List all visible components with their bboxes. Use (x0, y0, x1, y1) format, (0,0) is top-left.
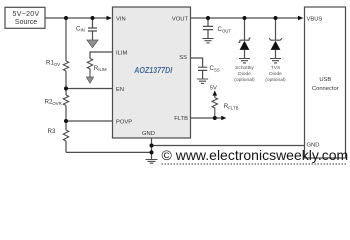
node GND right rail (150, 144, 154, 148)
svg-text:Schottky: Schottky (235, 65, 254, 71)
svg-text:© www.electronicsweekly.com: © www.electronicsweekly.com (162, 147, 349, 163)
resistor R3 zigzag (63, 130, 68, 141)
wire VOUT to VBUS (191, 17, 299, 19)
node EN (64, 87, 68, 91)
ground bottom center (146, 160, 158, 164)
node COUT (206, 16, 210, 20)
svg-text:Diode: Diode (269, 71, 282, 77)
svg-text:EN: EN (116, 87, 124, 93)
capacitor COUT (203, 18, 213, 38)
svg-text:VOUT: VOUT (172, 16, 189, 22)
arrowhead into VIN (107, 16, 112, 21)
svg-text:5V~20V: 5V~20V (13, 11, 40, 18)
svg-text:(optional): (optional) (265, 77, 286, 83)
svg-text:USB: USB (319, 77, 331, 83)
svg-text:AOZ1377DI: AOZ1377DI (133, 66, 173, 75)
resistor RILIM zigzag (87, 59, 92, 78)
node FLTB (213, 116, 217, 120)
watermark underline (162, 163, 347, 165)
arrowhead into VBUS (298, 16, 303, 21)
ground triangle RILIM (86, 77, 93, 83)
svg-text:Source: Source (15, 19, 37, 26)
svg-text:POVP: POVP (116, 119, 132, 125)
wire 5V supply (214, 95, 216, 98)
svg-text:(optional): (optional) (234, 77, 255, 83)
node CIN (91, 16, 95, 20)
svg-text:R3: R3 (48, 128, 56, 135)
wire FLTB (191, 117, 222, 119)
resistor RFLTB zigzag (212, 98, 217, 119)
svg-text:TVS: TVS (271, 65, 281, 71)
wire schottky diode (244, 18, 246, 58)
source box (5, 7, 45, 28)
TVS cathode bar (269, 38, 282, 40)
wire EN (66, 88, 113, 90)
capacitor CSS (198, 67, 207, 79)
wire ILIM (90, 52, 113, 59)
arrowhead 5V supply up (213, 90, 218, 95)
node source/R1 (64, 16, 68, 20)
svg-text:VBUS: VBUS (307, 17, 323, 23)
wire TVS diode (275, 18, 277, 58)
node TVS (274, 16, 278, 20)
arrowhead FLTB output (221, 116, 226, 120)
node schottky (243, 16, 247, 20)
ground schottky (239, 59, 250, 63)
ground triangle CIN (87, 40, 98, 48)
wire SS to CSS (191, 58, 203, 67)
svg-text:ILIM: ILIM (116, 51, 127, 57)
schottky cathode bar (238, 38, 250, 42)
node POVP (64, 119, 68, 123)
ground COUT (203, 39, 214, 43)
svg-text:VIN: VIN (116, 16, 126, 22)
TVS diode triangle (271, 41, 281, 50)
ground CSS (197, 79, 208, 83)
node GND left rail (150, 150, 154, 154)
IC body AOZ1377DI (113, 7, 191, 138)
wire left column (66, 18, 152, 152)
svg-text:5V: 5V (210, 85, 217, 91)
wire GND rail right (152, 145, 305, 147)
capacitor CIN (88, 18, 97, 40)
svg-text:SS: SS (179, 55, 187, 61)
svg-text:Connector: Connector (312, 86, 339, 92)
svg-text:GND: GND (142, 131, 155, 137)
schottky diode triangle (240, 41, 250, 50)
wire POVP (66, 120, 113, 122)
wire GND stem (151, 138, 153, 159)
wire source to VIN (45, 17, 107, 19)
USB connector box (305, 7, 346, 158)
resistor R1 zigzag (63, 61, 68, 71)
resistor R2 zigzag (63, 95, 68, 105)
ground TVS (270, 59, 281, 63)
svg-text:Diode: Diode (238, 71, 251, 77)
svg-text:FLTB: FLTB (174, 116, 188, 122)
